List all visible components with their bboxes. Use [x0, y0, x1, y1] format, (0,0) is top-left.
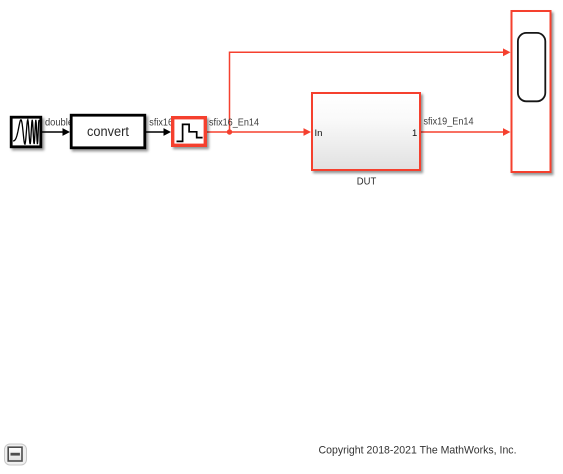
subsystem DUT — [312, 93, 420, 170]
wire: DUT to scope — [421, 128, 511, 136]
wire: quantizer to DUT — [207, 128, 311, 136]
junction dot — [227, 129, 232, 134]
source block (chirp signal) — [11, 117, 41, 147]
svg-text:In: In — [315, 128, 323, 139]
hide-contents button — [5, 444, 27, 465]
scope screen icon — [518, 33, 545, 101]
quantizer block — [173, 118, 206, 146]
svg-text:sfix16_En14: sfix16_En14 — [209, 117, 259, 128]
svg-text:1: 1 — [412, 128, 417, 139]
convert block — [71, 115, 145, 148]
svg-text:double: double — [45, 117, 73, 128]
svg-text:DUT: DUT — [357, 176, 377, 188]
wire branch: junction up and across to scope — [230, 48, 511, 132]
wire: source to convert — [42, 128, 70, 136]
svg-text:Copyright 2018-2021 The MathWo: Copyright 2018-2021 The MathWorks, Inc. — [319, 444, 517, 456]
scope block — [512, 11, 551, 172]
svg-text:sfix19_En14: sfix19_En14 — [424, 117, 474, 128]
svg-text:convert: convert — [87, 124, 129, 139]
wire: convert to quantizer — [146, 128, 171, 136]
